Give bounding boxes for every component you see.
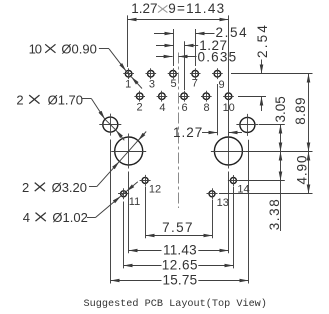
hole pin7 [190, 68, 201, 79]
svg-text:13: 13 [217, 197, 229, 209]
dim 1.27x9=11.43 top [128, 1, 229, 135]
svg-text:11.43: 11.43 [163, 242, 197, 257]
svg-text:15.75: 15.75 [163, 273, 198, 288]
hole pin6 [179, 91, 190, 102]
dim 2.54 vertical right [231, 23, 313, 111]
hole pin12 [140, 175, 151, 186]
svg-text:1.27: 1.27 [131, 1, 157, 16]
svg-text:2: 2 [22, 180, 29, 195]
svg-text:8.89: 8.89 [293, 97, 308, 124]
dim 12.65 bottom [124, 187, 234, 273]
svg-text:12: 12 [149, 184, 161, 196]
svg-text:3: 3 [149, 79, 155, 91]
svg-text:10: 10 [29, 42, 42, 57]
hole pin13 [207, 188, 218, 199]
svg-text:2.54: 2.54 [255, 23, 270, 58]
pin number labels row2 [136, 101, 234, 114]
svg-text:6: 6 [182, 102, 188, 114]
dim 1.27 top row [156, 38, 227, 53]
hole pin11 [118, 188, 129, 199]
dim 0.635 top row [156, 50, 237, 65]
svg-text:12.65: 12.65 [162, 258, 198, 273]
dim 7.57 bottom [146, 187, 213, 239]
svg-text:Suggested PCB Layout(Top View): Suggested PCB Layout(Top View) [84, 298, 267, 310]
svg-text:7.57: 7.57 [162, 220, 194, 235]
hole pin14 [228, 175, 239, 186]
hole pin2 [134, 91, 145, 102]
mounting hole D3.20 right [211, 134, 246, 169]
svg-text:Ø1.70: Ø1.70 [48, 92, 83, 107]
mounting hole D1.70 left [99, 114, 121, 136]
hole pin8 [201, 91, 212, 102]
svg-text:Ø0.90: Ø0.90 [61, 42, 96, 57]
svg-text:4: 4 [23, 210, 30, 225]
svg-text:11: 11 [129, 196, 140, 208]
svg-text:4: 4 [159, 102, 165, 114]
labels pins 11-14 [129, 183, 250, 209]
svg-text:1: 1 [125, 79, 131, 91]
hole pin1 [123, 68, 134, 79]
dim 2.54 top row [154, 25, 248, 40]
hole pin10 [223, 91, 234, 102]
mounting hole D3.20 left [111, 134, 146, 169]
hole pin4 [157, 91, 168, 102]
svg-text:3.38: 3.38 [267, 198, 282, 231]
dim 1.27 mid [173, 84, 242, 140]
svg-text:2: 2 [16, 92, 23, 107]
svg-text:5: 5 [171, 78, 177, 90]
leader 2x D3.20 [22, 132, 146, 195]
mounting hole D1.70 right [236, 114, 258, 136]
dim 11.43 bottom [129, 172, 229, 258]
svg-text:9: 9 [219, 79, 225, 91]
dim 3.05 vertical [259, 96, 288, 151]
extension lines top pins [174, 29, 196, 90]
leader 2x D1.70 [16, 92, 124, 140]
svg-text:8: 8 [203, 102, 209, 114]
leader 10x D0.90 [29, 42, 142, 89]
svg-text:2: 2 [136, 101, 142, 113]
svg-text:0.635: 0.635 [198, 50, 238, 65]
dim 15.75 bottom [111, 140, 249, 288]
svg-text:3.05: 3.05 [273, 96, 288, 122]
dim 4.90 vertical [219, 152, 313, 194]
svg-text:7: 7 [192, 78, 198, 90]
hole pin5 [168, 68, 179, 79]
svg-text:Ø1.02: Ø1.02 [52, 210, 87, 225]
hole pin9 [212, 68, 223, 79]
centerline [178, 53, 180, 209]
svg-text:1.27: 1.27 [173, 125, 203, 140]
svg-text:9=11.43: 9=11.43 [168, 1, 225, 16]
leader 4x D1.02 [23, 182, 138, 225]
pin number labels row1 [125, 78, 225, 91]
svg-text:Ø3.20: Ø3.20 [52, 180, 87, 195]
dim 8.89 vertical [293, 74, 309, 152]
dim 3.38 vertical [239, 152, 285, 232]
hole pin3 [146, 68, 157, 79]
svg-text:4.90: 4.90 [294, 155, 309, 185]
